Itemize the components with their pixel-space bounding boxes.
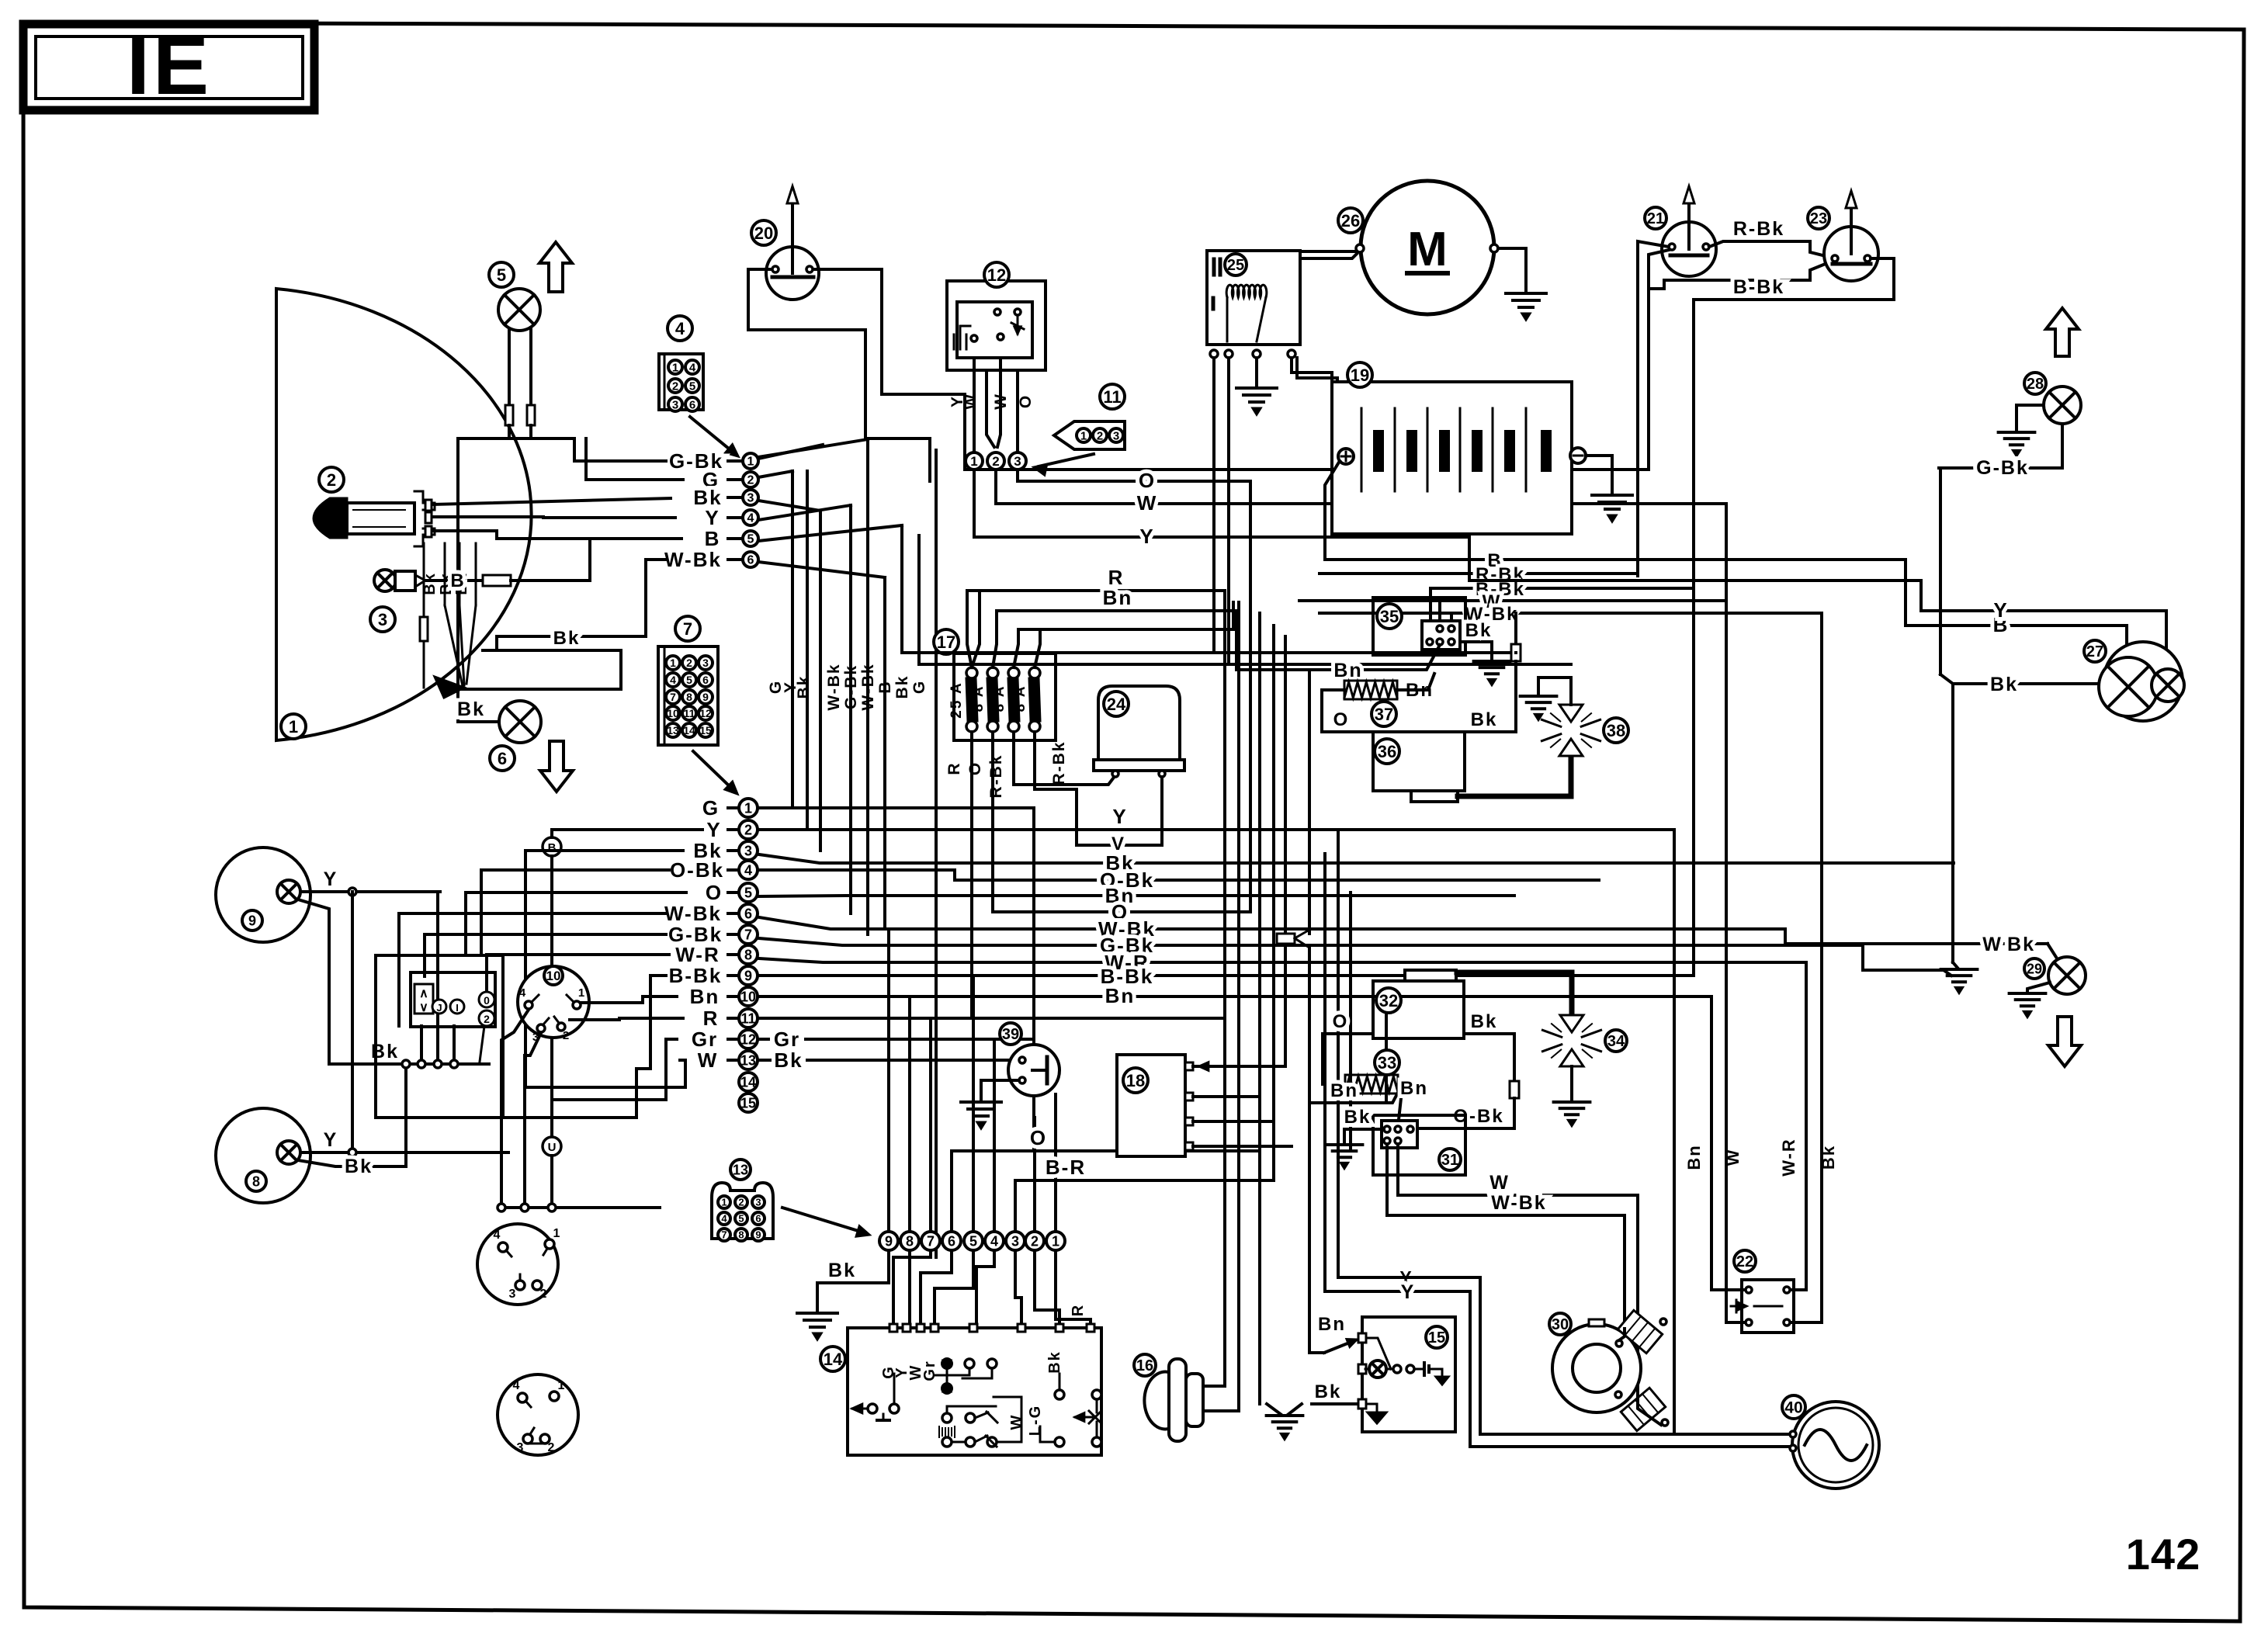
short verticals from bus to panel [420, 1026, 423, 1064]
svg-text:3: 3 [509, 1288, 516, 1301]
box 18 pins [1185, 1062, 1193, 1070]
svg-text:39: 39 [1002, 1026, 1019, 1043]
ignition connector 10 [518, 966, 589, 1038]
svg-text:W: W [992, 393, 1010, 410]
wire bulb pin3 to B node5 [433, 531, 681, 539]
wire 23 left lower leg [1649, 260, 1835, 289]
svg-text:2: 2 [747, 474, 754, 487]
svg-text:7: 7 [683, 619, 692, 639]
svg-text:11: 11 [684, 707, 695, 719]
spark gap 38 [1559, 705, 1583, 722]
badge 12 [984, 262, 1009, 287]
arrow connector 13 to node row [782, 1208, 863, 1232]
switch 39 key symbol [1046, 1057, 1049, 1083]
svg-text:12: 12 [699, 707, 712, 719]
flasher 35 connector [1422, 621, 1460, 650]
wire box18 pin2 [1193, 1095, 1260, 1098]
svg-text:Bk: Bk [1471, 709, 1498, 730]
wire O box32 [1323, 1034, 1373, 1084]
wire W-Bk row left leg [497, 560, 666, 650]
connector 10 pin 3 [537, 1024, 545, 1032]
wire W to lower cap [1638, 1397, 1661, 1425]
resistor 33 [1345, 1075, 1398, 1094]
box15 interior lamp [1366, 1338, 1391, 1369]
svg-text:W-R: W-R [675, 943, 720, 966]
svg-text:U: U [548, 1141, 557, 1154]
svg-text:4: 4 [990, 1233, 998, 1249]
svg-text:34: 34 [1607, 1033, 1625, 1050]
wire lamp5 left leg [508, 329, 511, 405]
svg-text:O-Bk: O-Bk [670, 858, 724, 882]
fuse1 top V wires to R bus [967, 591, 972, 667]
panel 14 Gr switch [942, 1358, 952, 1369]
battery plates [1374, 431, 1383, 471]
gauge 9 body [216, 847, 310, 942]
svg-text:15: 15 [740, 1095, 756, 1111]
svg-text:W-Bk: W-Bk [664, 548, 722, 571]
svg-text:5: 5 [497, 265, 506, 285]
switch 39 contacts [1019, 1057, 1025, 1063]
O line from fuse 2 [993, 910, 1250, 913]
svg-text:8 A: 8 A [991, 685, 1007, 712]
fuse2 bottom O to O bus [991, 732, 994, 912]
svg-text:W: W [1723, 1149, 1743, 1166]
svg-text:5: 5 [969, 1233, 977, 1249]
svg-text:6: 6 [702, 674, 709, 686]
wire Y1 to alternator [1338, 1277, 1793, 1434]
row G-Bk right to ground [759, 938, 1944, 970]
svg-text:4: 4 [721, 1213, 727, 1225]
svg-text:35: 35 [1380, 607, 1399, 626]
wire 23 right to B-Bk [1694, 258, 1894, 300]
wires relay 12 down legs [973, 358, 976, 452]
svg-text:6: 6 [744, 906, 752, 921]
Bk bus right end [480, 1062, 489, 1066]
wire bulb pin2 to Y node4 [433, 517, 675, 518]
wire Bn to flasher [1236, 645, 1440, 670]
vertical wire G-Bk x=1118 [866, 439, 869, 934]
svg-text:15: 15 [1428, 1329, 1445, 1347]
svg-text:Bk: Bk [457, 698, 485, 720]
ground x2517 [1953, 962, 1958, 968]
svg-text:B-R: B-R [1046, 1156, 1086, 1179]
direction arrow up-right [2046, 308, 2079, 356]
wire lamp bus to G-Bk node row [573, 438, 576, 461]
badge 26 [1338, 208, 1363, 233]
wire Y gauge8 [301, 1151, 508, 1154]
svg-text:9: 9 [248, 913, 256, 928]
round connector B [498, 1374, 578, 1455]
connector block 13 [730, 1159, 751, 1180]
wire Bn into box15 [1309, 1351, 1324, 1354]
svg-text:1: 1 [553, 1227, 560, 1240]
svg-text:Bn: Bn [1400, 1078, 1428, 1099]
vertical x1332 upper [1032, 808, 1035, 1045]
badge 24 [1104, 691, 1129, 716]
svg-text:13: 13 [733, 1162, 748, 1177]
badge 6 [490, 746, 515, 771]
svg-text:8: 8 [738, 1229, 744, 1241]
bus y856 [919, 663, 1229, 666]
svg-text:3: 3 [744, 843, 752, 858]
svg-text:3: 3 [1113, 429, 1119, 442]
badge 8 [246, 1171, 266, 1191]
wire gauge8 Bk leg [298, 1160, 394, 1166]
badge 21 [1645, 207, 1666, 229]
svg-text:O: O [1333, 709, 1350, 730]
svg-text:R-Bk: R-Bk [987, 754, 1005, 798]
vertical from Y to Bk bus [436, 892, 439, 1064]
svg-text:2: 2 [1031, 1233, 1039, 1249]
vertical wire G x=1021 [791, 471, 794, 808]
gauge 9 lamp [277, 880, 300, 903]
svg-text:10: 10 [740, 989, 756, 1004]
svg-text:15: 15 [699, 724, 712, 737]
svg-text:20: 20 [754, 224, 773, 243]
switch 39 body [1008, 1045, 1059, 1096]
svg-text:Gr: Gr [692, 1028, 718, 1051]
fuse2 top wire to Bn bus [993, 611, 997, 667]
vertical box18 pin1 [1284, 636, 1287, 1066]
svg-text:3: 3 [1014, 454, 1021, 469]
svg-text:28: 28 [2027, 376, 2044, 393]
row Gr right route to switch 14 [838, 1038, 1034, 1041]
bus W to relay 22 [1299, 599, 1726, 602]
ground of switch 39 [961, 1100, 1001, 1104]
instrument sub-panel outer [376, 955, 503, 1118]
motor 26 body [1361, 181, 1494, 314]
relay 22 box [1742, 1280, 1794, 1333]
svg-text:Bk: Bk [795, 675, 813, 699]
starter relay 25 box [1207, 251, 1300, 345]
svg-text:142: 142 [2126, 1530, 2200, 1579]
flywheel magneto 30 [1552, 1324, 1641, 1412]
lamp 6 tail position [499, 701, 541, 743]
relay 25 coil [1226, 285, 1267, 297]
svg-text:Bn: Bn [1318, 1314, 1346, 1335]
svg-text:1: 1 [558, 1379, 565, 1392]
svg-text:7: 7 [927, 1233, 935, 1249]
lamp box 15 [1362, 1317, 1455, 1432]
box 36 [1373, 732, 1465, 791]
vertical Bk with resistor to W-Bk bus [1514, 613, 1517, 644]
wire box18 pin1 [1193, 1065, 1285, 1068]
badge 20 [751, 220, 776, 245]
svg-text:∧: ∧ [419, 987, 428, 1000]
headlight shell 1 [276, 289, 532, 740]
svg-text:5: 5 [747, 533, 754, 546]
svg-text:3: 3 [1011, 1233, 1019, 1249]
vertical pair x1724 [1337, 830, 1340, 1277]
fan diagonals from nodes 1-6 [758, 445, 823, 459]
svg-text:25 A: 25 A [948, 681, 965, 718]
horn switch 21 body [1662, 222, 1716, 276]
regulator pins [1112, 771, 1118, 777]
svg-text:Y: Y [324, 1129, 338, 1151]
IE title box [23, 24, 314, 110]
wire box18 pin4 [1193, 1145, 1292, 1148]
panel 14 right switch [1075, 1413, 1084, 1422]
spark plug cap lower [1621, 1388, 1665, 1430]
row B-R to switch 14 [1015, 1179, 1274, 1182]
svg-text:2: 2 [672, 380, 678, 393]
svg-text:G-Bk: G-Bk [842, 664, 860, 709]
vertical O to bus [1249, 481, 1252, 912]
fuse4 bottom to V wire [1035, 732, 1077, 845]
svg-text:R: R [945, 761, 963, 775]
svg-text:O: O [1139, 469, 1156, 492]
box15 lower pin to ground [1366, 1404, 1377, 1412]
row Bk right to lamp 27 [759, 854, 1954, 863]
bullet connector U [543, 1137, 561, 1156]
lamp 29 number plate [2048, 957, 2086, 994]
svg-text:R-Bk: R-Bk [1733, 218, 1784, 240]
arrow connector 4 to node 1 [690, 417, 733, 452]
svg-text:1: 1 [289, 717, 298, 737]
wire Y2 to alternator [1325, 1291, 1793, 1447]
svg-text:6: 6 [747, 554, 754, 567]
vertical Y bus to alternator line [1673, 830, 1676, 1434]
wire switch20 right leg [813, 269, 965, 394]
wire 21 left contact legs [1638, 241, 1669, 576]
row G-Bk left leg wrap [425, 933, 666, 936]
horn switch 23 body [1824, 227, 1878, 281]
svg-text:Bk: Bk [345, 1156, 373, 1177]
row O right as Bn line [759, 896, 1514, 896]
wire Bk box 32 right [1464, 1032, 1514, 1035]
bus B to lamp 27 [1327, 560, 2127, 657]
wire Bk from box 36 [1465, 730, 1516, 733]
node circles 1-15 [728, 806, 739, 809]
svg-text:W-Bk: W-Bk [825, 663, 843, 710]
svg-text:29: 29 [2027, 961, 2042, 976]
svg-text:22: 22 [1736, 1253, 1753, 1270]
badge 14 [820, 1347, 845, 1371]
indicator J [432, 1000, 446, 1014]
wire node3 O down right [1018, 470, 1250, 481]
svg-text:W: W [1008, 1414, 1025, 1430]
svg-text:12: 12 [987, 265, 1006, 285]
vertical wire W-Bk x=1140 [883, 577, 886, 929]
vertical W to relay 22 [1725, 504, 1728, 1322]
Bk bus gauges [329, 1062, 480, 1066]
wire resistor right to Bn [1397, 674, 1434, 690]
svg-text:36: 36 [1378, 742, 1396, 761]
svg-text:Gr: Gr [921, 1360, 938, 1381]
svg-text:26: 26 [1341, 211, 1360, 230]
wire B row left [590, 537, 681, 540]
svg-text:33: 33 [1378, 1053, 1396, 1073]
badge 5 [489, 262, 514, 287]
vertical Bk x2517 [1951, 684, 1954, 962]
svg-text:R: R [703, 1007, 720, 1030]
svg-text:38: 38 [1607, 721, 1625, 740]
badge 19 [1347, 362, 1372, 387]
verticals above node row 9-1 [887, 929, 890, 1232]
svg-text:1: 1 [1080, 429, 1087, 442]
label Gr right of node 12 [758, 1038, 768, 1041]
relay contact legs [1212, 358, 1215, 653]
relay ground leg [1255, 358, 1258, 388]
svg-text:8 A: 8 A [970, 685, 987, 712]
svg-text:1: 1 [670, 657, 676, 669]
svg-text:4: 4 [519, 986, 526, 1000]
svg-text:IE: IE [127, 18, 212, 112]
switch panel 14 box [848, 1328, 1101, 1455]
svg-text:2: 2 [548, 1441, 555, 1454]
svg-text:14: 14 [740, 1074, 756, 1090]
svg-text:B-Bk: B-Bk [1733, 276, 1784, 298]
svg-text:Gr: Gr [774, 1028, 800, 1051]
fan extra diagonal node1 to far bundle [758, 439, 868, 457]
svg-text:Bk: Bk [893, 675, 911, 699]
spark gap 34 [1560, 1015, 1583, 1032]
vertical W-R to relay 22 [1805, 962, 1808, 1290]
bus W-Bk [1320, 612, 1822, 615]
svg-text:Y: Y [324, 868, 338, 890]
svg-text:9: 9 [885, 1233, 893, 1249]
svg-text:10: 10 [546, 969, 561, 983]
svg-text:9: 9 [744, 968, 752, 983]
svg-text:Bn: Bn [1684, 1144, 1704, 1170]
svg-text:2: 2 [738, 1197, 744, 1208]
panel 14 middle switch [942, 1413, 952, 1423]
relay 12 capacitor [959, 326, 962, 349]
svg-text:Y: Y [706, 818, 721, 841]
svg-text:W: W [698, 1048, 719, 1072]
wire G row left leg [586, 438, 683, 480]
row W-Bk left leg wrap [399, 912, 666, 915]
nodes 1-3 of connector 11 [966, 452, 983, 470]
bus B-Bk to switch 23 [1431, 587, 1694, 590]
svg-text:40: 40 [1784, 1399, 1802, 1417]
svg-text:10: 10 [667, 707, 679, 719]
svg-text:12: 12 [740, 1031, 756, 1047]
svg-text:Y: Y [705, 506, 720, 529]
stub W to flasher 35 [1438, 601, 1441, 626]
wire W-Bk to upper cap [1619, 1329, 1625, 1340]
svg-text:Bk: Bk [1465, 620, 1493, 641]
connector 10 pin 2 [557, 1023, 565, 1031]
svg-text:O: O [1017, 394, 1035, 408]
svg-text:2: 2 [484, 1013, 490, 1025]
wire battery plus cable [1325, 461, 1340, 560]
svg-text:18: 18 [1126, 1071, 1145, 1090]
wire resistor left to O [1322, 690, 1344, 732]
indicator 2 [479, 1010, 494, 1026]
panel 14 left switch [852, 1404, 862, 1412]
svg-text:3: 3 [517, 1441, 524, 1454]
Bn bus [997, 611, 1236, 670]
wire lamp29 to ground [2027, 983, 2050, 993]
bus R-Bk to horn switch 21 [1320, 572, 1638, 575]
vertical pair x1707 [1323, 854, 1326, 1291]
svg-text:1: 1 [744, 800, 752, 816]
svg-text:W-Bk: W-Bk [1491, 1192, 1546, 1214]
svg-text:3: 3 [672, 398, 678, 411]
vertical box18 pin2 [1258, 613, 1261, 1151]
wire spark gap 34 to ground [1570, 1066, 1573, 1102]
vertical wire B x=1162 [900, 525, 903, 653]
svg-text:14: 14 [683, 724, 695, 737]
bottom bus under panel [498, 1206, 660, 1209]
row W left leg wrap [680, 1059, 685, 1062]
badge 1 [281, 714, 306, 739]
svg-text:2: 2 [540, 1288, 547, 1301]
fuse box 17 [934, 629, 959, 654]
svg-text:24: 24 [1107, 695, 1126, 714]
wire node2 W down right [996, 470, 1726, 504]
lamp 3 pilot bulb [374, 570, 396, 591]
svg-text:O: O [966, 761, 984, 775]
svg-text:B: B [876, 680, 894, 693]
fuse 1 [966, 667, 977, 678]
svg-text:Bk: Bk [1046, 1350, 1063, 1374]
panel 14 bottom switch row [942, 1437, 952, 1447]
wire lamp28 G-Bk [1939, 424, 2062, 468]
R bus [967, 589, 1225, 592]
wire down left to lamp6 [458, 438, 499, 722]
svg-text:7: 7 [670, 691, 676, 703]
box15 pins [1358, 1333, 1366, 1343]
vertical wire Bk x=1184 [917, 535, 921, 664]
interchange wires into switch 14 [908, 1250, 911, 1328]
svg-text:2: 2 [563, 1029, 569, 1042]
wire node1 Y down right [974, 470, 1469, 537]
wire Y gauge9 [301, 890, 440, 893]
row Y left to bullet B [552, 828, 702, 831]
svg-text:19: 19 [1351, 366, 1369, 385]
svg-text:Y: Y [1401, 1281, 1416, 1303]
vertical x1332 lower [1032, 1095, 1035, 1151]
row Bk left leg [525, 849, 683, 852]
row O to switch 14 [952, 1149, 1260, 1152]
svg-text:L-G: L-G [1027, 1405, 1044, 1436]
svg-text:G: G [702, 796, 720, 820]
regulator 24 body [1098, 686, 1180, 760]
svg-text:O: O [1333, 1011, 1349, 1032]
connector 10 pin 1 [573, 1001, 581, 1009]
vertical W-Bk to upper cap [1623, 1215, 1626, 1329]
svg-text:11: 11 [1103, 387, 1121, 407]
svg-text:1: 1 [747, 456, 754, 469]
spark plug cap upper [1618, 1310, 1662, 1353]
relay leg to battery plus [1292, 358, 1344, 452]
svg-text:5: 5 [686, 674, 692, 686]
row W-Bk right to lamp 29 [759, 917, 2048, 944]
svg-text:14: 14 [824, 1350, 843, 1369]
svg-text:5: 5 [689, 380, 695, 393]
wire bus under lamp5 [458, 437, 574, 440]
wire O into box 36 [1322, 730, 1373, 733]
wire flasher Bk to ground [1460, 642, 1492, 661]
svg-text:G-Bk: G-Bk [1976, 457, 2029, 479]
svg-text:Bk: Bk [1315, 1381, 1342, 1402]
vertical Bn to relay 22 [1710, 996, 1713, 1290]
svg-text:4: 4 [513, 1379, 520, 1392]
bullet connector Bn [1277, 934, 1295, 944]
svg-text:6: 6 [948, 1233, 955, 1249]
wire Bn bus into resistor [1309, 1090, 1399, 1103]
wire Y gauge link vertical [351, 892, 354, 1152]
svg-text:Bk: Bk [553, 628, 581, 649]
row Gr left leg wrap [666, 1038, 677, 1041]
svg-text:2: 2 [686, 657, 692, 669]
fuse 4 [1029, 667, 1040, 678]
round connector A [477, 1224, 558, 1305]
gauge 8 body [216, 1108, 310, 1203]
svg-text:Bn: Bn [1105, 984, 1136, 1007]
